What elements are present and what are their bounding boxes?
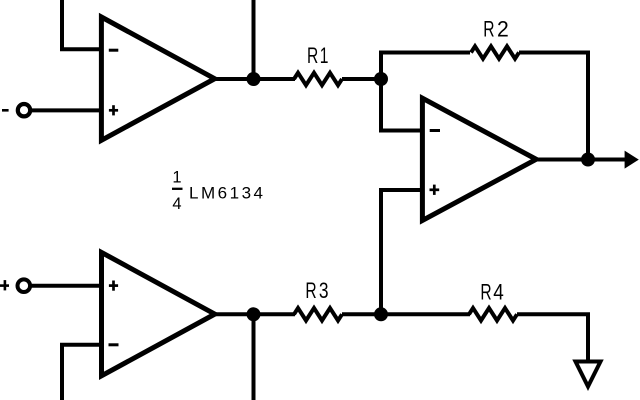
svg-text:4: 4	[172, 195, 181, 213]
label R3	[305, 279, 328, 304]
node B junction	[374, 307, 388, 321]
op-amp U1b minus pin mark	[109, 343, 119, 346]
wire U1c output	[533, 158, 626, 162]
node junction at output	[581, 153, 595, 167]
label plus input	[0, 280, 9, 290]
wire U1c plus input from node B	[381, 190, 423, 314]
wire U1a output	[212, 77, 295, 81]
resistor R4	[469, 308, 517, 320]
svg-text:R: R	[307, 44, 318, 68]
output arrow	[625, 151, 639, 169]
wire R3 to node B	[342, 312, 470, 316]
label R1	[307, 44, 328, 68]
svg-text:R: R	[483, 18, 494, 42]
wire input to U1a plus	[30, 108, 102, 112]
ground	[576, 362, 601, 387]
wire node A up to R2	[381, 53, 470, 80]
op-amp U1c plus pin mark	[430, 185, 440, 195]
node: input terminal minus	[18, 104, 30, 116]
svg-text:2: 2	[497, 16, 509, 42]
wire feedback to U1b inverting input	[62, 345, 102, 400]
wire node A down to U1c inverting input	[381, 79, 423, 131]
svg-text:1: 1	[320, 44, 329, 68]
svg-text:3: 3	[319, 279, 329, 304]
svg-text:LM6134: LM6134	[189, 184, 263, 203]
resistor R1	[294, 73, 342, 85]
node: input terminal plus	[18, 279, 31, 292]
svg-text:R: R	[305, 279, 316, 303]
svg-text:R: R	[480, 281, 491, 305]
resistor R3	[294, 308, 342, 320]
node A junction	[374, 72, 388, 86]
wire U1b output	[212, 312, 295, 316]
resistor R2	[471, 46, 519, 58]
op-amp U1c minus pin mark	[430, 129, 440, 132]
label minus input	[2, 109, 9, 112]
op-amp U1a (top-left)	[101, 17, 214, 140]
svg-text:4: 4	[493, 280, 504, 305]
node junction at U1a output	[247, 72, 261, 86]
op-amp U1b plus pin mark	[109, 281, 118, 291]
wire input to U1b plus	[30, 284, 102, 288]
label R2	[483, 16, 508, 42]
wire R2 to output node	[519, 53, 588, 160]
svg-text:1: 1	[172, 169, 181, 187]
op-amp U1a plus pin mark	[109, 105, 118, 115]
wire R1 to node A	[342, 77, 381, 81]
wire U1a output up to top edge	[252, 0, 256, 79]
op-amp U1c (right)	[422, 98, 536, 220]
op-amp U1b (bottom-left)	[102, 252, 215, 375]
wire U1b output down to bottom edge	[252, 314, 256, 400]
wire feedback to U1a inverting input	[62, 0, 102, 49]
wire R4 to ground	[517, 314, 588, 361]
label fraction 1/4	[172, 169, 183, 214]
node junction at U1b output	[247, 307, 261, 321]
op-amp U1a minus pin mark	[109, 49, 119, 52]
label R4	[480, 280, 503, 305]
